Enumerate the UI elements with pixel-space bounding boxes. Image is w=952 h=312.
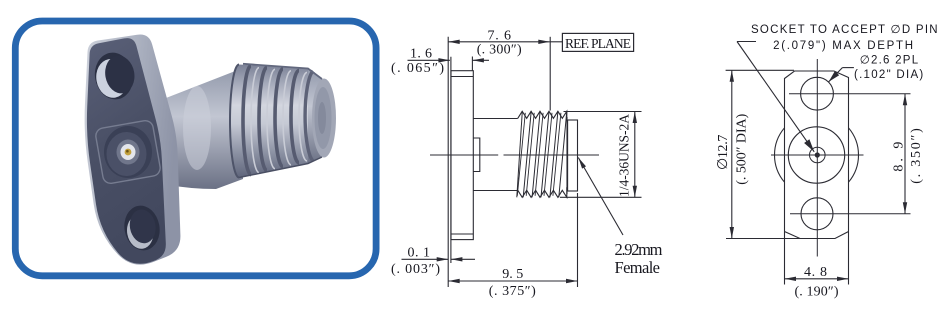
svg-text:9. 5: 9. 5 [502,267,523,282]
side view: coupling end face [567,117,578,194]
photo: coupling end face [308,69,322,164]
svg-text:4. 8: 4. 8 [804,265,827,280]
svg-text:(. 375″): (. 375″) [489,284,536,299]
photo frame border [15,21,376,276]
svg-text:(. 300″): (. 300″) [477,43,522,58]
svg-text:(. 500″ DIA): (. 500″ DIA) [735,113,750,184]
svg-text:(. 003″): (. 003″) [391,262,440,277]
svg-text:REF. PLANE: REF. PLANE [565,36,631,51]
hole dia leader line [829,68,854,82]
front view: center lines [771,59,911,257]
3D connector photo [85,35,336,265]
dimension 9.5 (.375") [448,193,577,299]
photo: center socket contact [104,126,152,178]
dimension 1.6 (.065") [391,47,489,76]
svg-text:(. 190″): (. 190″) [795,284,839,299]
photo: bottom mounting hole [121,203,163,253]
photo: threaded barrel [230,65,315,178]
dimension 7.6 (.300") [448,29,550,58]
dimension 0.1 (.003") [391,245,475,276]
svg-text:1. 6: 1. 6 [410,47,432,62]
svg-text:∅12.7: ∅12.7 [716,135,731,170]
svg-text:2(.079") MAX DEPTH: 2(.079") MAX DEPTH [773,40,913,52]
front view: mounting holes [801,77,834,230]
svg-text:7. 6: 7. 6 [487,29,511,44]
front view: socket [810,147,826,163]
dimension 8.9 (.350") [892,94,925,214]
photo: top mounting hole [91,49,138,102]
svg-text:∅2.6 2PL: ∅2.6 2PL [860,54,919,66]
2.92mm Female label [578,158,662,278]
socket leader line [737,42,814,152]
REF. PLANE callout box [550,33,634,110]
svg-text:SOCKET TO ACCEPT ∅D PIN: SOCKET TO ACCEPT ∅D PIN [751,24,938,36]
svg-text:Female: Female [615,258,661,277]
svg-text:1/4-36UNS-2A: 1/4-36UNS-2A [617,114,632,197]
socket note text [751,24,938,81]
side view: rear gasket face lines [448,37,451,287]
dimension 4.8 (.190") [785,232,849,299]
side view: flange plate [451,71,473,240]
side view: threaded section 1/4-36UNS-2A [517,111,567,197]
dimension dia 12.7 (.500" DIA) [716,70,800,238]
side view: body cylinder [473,119,518,191]
photo: rear body cylinder [166,68,243,189]
svg-text:(. 350″): (. 350″) [909,128,924,184]
svg-text:(. 065″): (. 065″) [391,61,444,76]
front view: thread circle arcs [775,128,859,182]
side view: center line [430,154,599,156]
front view: flange outline [785,71,849,239]
photo: interface boss [95,119,162,184]
side view: front boss [473,138,480,172]
svg-text:0. 1: 0. 1 [408,245,431,260]
thread spec 1/4-36UNS-2A [560,112,642,198]
front view: body circle [788,127,844,183]
photo: flange plate [85,35,181,265]
svg-text:(.102" DIA): (.102" DIA) [854,69,923,81]
svg-text:2.92mm: 2.92mm [615,240,663,259]
